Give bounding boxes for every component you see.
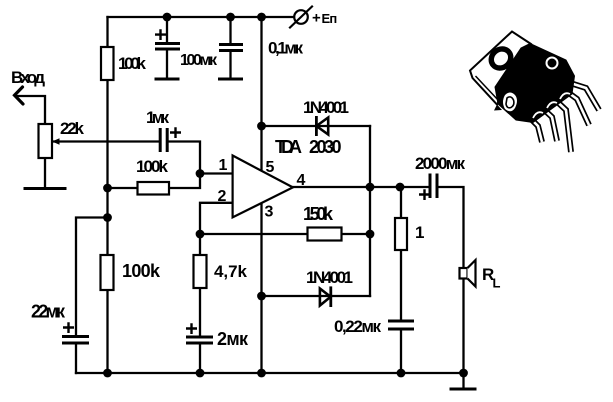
svg-text:4: 4	[297, 172, 306, 189]
svg-text:100k: 100k	[136, 157, 169, 176]
svg-text:Вход: Вход	[11, 68, 45, 87]
svg-text:2мк: 2мк	[217, 329, 249, 349]
svg-text:22мк: 22мк	[31, 302, 66, 322]
svg-text:2030: 2030	[309, 137, 342, 157]
svg-text:1: 1	[415, 223, 424, 242]
svg-text:+: +	[312, 10, 321, 27]
svg-text:100k: 100k	[118, 54, 147, 73]
svg-text:4,7k: 4,7k	[214, 262, 248, 281]
svg-text:1мк: 1мк	[146, 108, 169, 127]
svg-text:2: 2	[218, 188, 227, 205]
svg-text:100k: 100k	[122, 261, 161, 281]
svg-text:0,1мк: 0,1мк	[268, 39, 303, 58]
svg-text:100мк: 100мк	[180, 52, 218, 69]
svg-text:1N4001: 1N4001	[303, 98, 349, 117]
svg-text:1N4001: 1N4001	[306, 268, 353, 287]
svg-text:TDA: TDA	[275, 137, 302, 157]
svg-text:150k: 150k	[303, 204, 334, 224]
svg-text:Еп: Еп	[322, 11, 337, 26]
svg-text:L: L	[493, 276, 501, 291]
svg-text:0,22мк: 0,22мк	[334, 317, 381, 336]
svg-text:5: 5	[266, 159, 275, 176]
svg-text:1: 1	[219, 157, 228, 174]
svg-text:22k: 22k	[60, 119, 85, 138]
svg-text:2000мк: 2000мк	[415, 154, 465, 173]
svg-text:3: 3	[265, 204, 274, 221]
